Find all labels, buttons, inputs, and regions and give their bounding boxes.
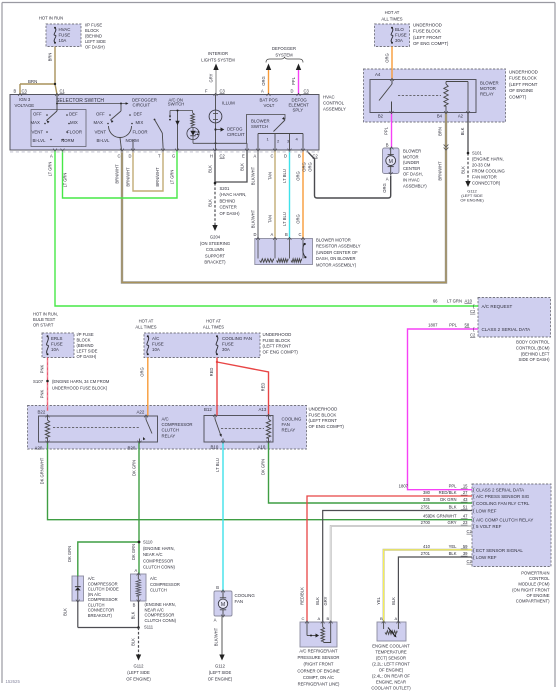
svg-text:C: C: [118, 154, 121, 159]
svg-text:FAN: FAN: [235, 599, 244, 604]
svg-text:GRY: GRY: [209, 73, 214, 82]
svg-text:DEFOG: DEFOG: [227, 127, 243, 132]
svg-text:COMPT, ON A/C: COMPT, ON A/C: [303, 675, 334, 680]
svg-text:OF ENGINE: OF ENGINE: [509, 88, 533, 93]
svg-text:SWITCH: SWITCH: [168, 101, 185, 106]
svg-text:COOLING FAN RLY CTRL: COOLING FAN RLY CTRL: [476, 501, 530, 506]
svg-text:(ECT) SENSOR: (ECT) SENSOR: [376, 656, 406, 661]
svg-text:A22: A22: [137, 410, 145, 415]
svg-text:OF DASH): OF DASH): [85, 45, 105, 50]
svg-text:23: 23: [463, 520, 468, 525]
svg-text:CONTROL (BCM): CONTROL (BCM): [516, 345, 550, 350]
svg-text:HOT AT: HOT AT: [385, 10, 400, 15]
svg-text:CLASS 2 SERIAL DATA: CLASS 2 SERIAL DATA: [476, 488, 524, 493]
svg-text:5 VOLT REF: 5 VOLT REF: [476, 524, 502, 529]
svg-text:BLK: BLK: [449, 505, 457, 510]
svg-text:FUSE: FUSE: [222, 342, 234, 347]
svg-text:CONNECTOR): CONNECTOR): [472, 181, 501, 186]
svg-text:2700: 2700: [421, 520, 431, 525]
svg-text:C2: C2: [220, 154, 226, 159]
svg-text:(HVAC HARN,: (HVAC HARN,: [220, 192, 247, 197]
svg-text:C3: C3: [220, 89, 226, 94]
svg-text:DEF: DEF: [134, 112, 143, 117]
svg-text:BLK: BLK: [460, 127, 465, 135]
svg-text:OFF: OFF: [33, 112, 42, 117]
svg-text:BLK/WHT: BLK/WHT: [251, 166, 256, 185]
svg-text:COOLANT OUTLET): COOLANT OUTLET): [371, 686, 411, 691]
svg-text:IGN 3: IGN 3: [19, 97, 31, 102]
svg-text:OF ENG COMPT): OF ENG COMPT): [309, 424, 345, 429]
svg-text:FROM COOLING: FROM COOLING: [472, 169, 505, 174]
svg-text:LT BLU: LT BLU: [282, 212, 287, 226]
svg-text:CIRCUIT: CIRCUIT: [133, 103, 151, 108]
svg-text:D: D: [129, 154, 132, 159]
svg-text:BLOCK: BLOCK: [85, 28, 99, 33]
svg-text:UNDERHOOD: UNDERHOOD: [509, 70, 538, 75]
svg-text:(LEFT FRONT: (LEFT FRONT: [309, 418, 338, 423]
svg-text:PPL: PPL: [449, 484, 458, 489]
svg-text:C2: C2: [470, 333, 476, 338]
svg-text:58: 58: [465, 323, 470, 328]
svg-text:REFRIGERANT LINE): REFRIGERANT LINE): [298, 682, 340, 687]
svg-text:BLK/WHT: BLK/WHT: [251, 209, 256, 228]
svg-text:YEL: YEL: [376, 596, 381, 605]
svg-text:CORNER OF ENGINE: CORNER OF ENGINE: [297, 668, 340, 673]
svg-text:51: 51: [463, 505, 468, 510]
svg-text:FUSE: FUSE: [395, 33, 407, 38]
svg-text:ALL TIMES: ALL TIMES: [381, 17, 402, 22]
svg-text:NORM: NORM: [126, 138, 140, 143]
svg-text:CONTROL: CONTROL: [529, 576, 550, 581]
svg-text:(ENGINE HARN,: (ENGINE HARN,: [145, 602, 176, 607]
svg-text:B: B: [380, 616, 383, 621]
svg-text:BLOWER MOTOR: BLOWER MOTOR: [316, 238, 351, 243]
svg-text:BLK: BLK: [131, 638, 136, 646]
svg-text:(2.2L: LEFT FRONT: (2.2L: LEFT FRONT: [372, 662, 410, 667]
svg-text:B: B: [298, 154, 301, 159]
svg-text:CLUTCH: CLUTCH: [88, 602, 105, 607]
svg-text:A: A: [395, 616, 398, 621]
svg-text:A/C REQUEST: A/C REQUEST: [482, 304, 513, 309]
svg-text:B: B: [14, 89, 17, 94]
svg-text:CLUTCH: CLUTCH: [162, 428, 179, 433]
svg-text:OF ENGINE): OF ENGINE): [126, 677, 151, 682]
svg-text:BLOWER: BLOWER: [403, 149, 421, 154]
svg-text:COMPRESSOR: COMPRESSOR: [150, 582, 180, 587]
svg-text:VENT: VENT: [32, 130, 44, 135]
svg-text:COOLING FAN: COOLING FAN: [222, 336, 252, 341]
svg-text:CIRCUIT: CIRCUIT: [227, 132, 245, 137]
svg-text:(ON STEERING: (ON STEERING: [200, 241, 230, 246]
svg-text:FUSE: FUSE: [59, 33, 71, 38]
svg-text:C3: C3: [304, 89, 310, 94]
svg-text:BREAKOUT): BREAKOUT): [88, 613, 113, 618]
svg-text:A20: A20: [35, 446, 43, 451]
svg-text:ORG: ORG: [296, 214, 301, 223]
svg-text:B2: B2: [378, 114, 384, 119]
svg-text:66: 66: [433, 299, 438, 304]
svg-text:BRN/WHT: BRN/WHT: [155, 167, 160, 187]
svg-text:CLUTCH CONN): CLUTCH CONN): [145, 618, 177, 623]
svg-text:BLK/WHT: BLK/WHT: [214, 627, 219, 646]
svg-text:380: 380: [423, 490, 431, 495]
svg-text:CLUTCH CONN): CLUTCH CONN): [143, 565, 175, 570]
svg-text:BLO: BLO: [395, 27, 404, 32]
svg-text:DK GRN/WHT: DK GRN/WHT: [40, 457, 45, 484]
svg-text:B: B: [386, 143, 389, 148]
svg-text:BLK: BLK: [391, 597, 396, 605]
svg-text:I/P FUSE: I/P FUSE: [85, 23, 102, 28]
svg-text:G112: G112: [134, 664, 145, 669]
svg-text:FUSE BLOCK: FUSE BLOCK: [413, 29, 441, 34]
svg-text:BAT POS: BAT POS: [260, 98, 278, 103]
svg-text:MIX: MIX: [70, 120, 78, 125]
svg-text:A13: A13: [259, 407, 267, 412]
svg-text:LIGHTS SYSTEM: LIGHTS SYSTEM: [201, 58, 235, 63]
svg-text:C3: C3: [22, 89, 28, 94]
svg-text:RELAY: RELAY: [282, 428, 296, 433]
svg-text:BRN/WHT: BRN/WHT: [115, 164, 120, 184]
svg-text:FUSE: FUSE: [152, 342, 164, 347]
svg-text:BRN/WHT: BRN/WHT: [126, 167, 131, 187]
svg-text:D: D: [291, 89, 294, 94]
svg-text:OR START: OR START: [33, 323, 54, 328]
svg-text:BRN: BRN: [438, 127, 443, 136]
svg-text:BODY CONTROL: BODY CONTROL: [516, 340, 550, 345]
svg-text:NORM: NORM: [61, 138, 75, 143]
svg-text:59: 59: [463, 544, 468, 549]
svg-text:SPLY: SPLY: [293, 108, 304, 113]
svg-text:CLUTCH: CLUTCH: [150, 588, 167, 593]
svg-text:(BEHIND LEFT: (BEHIND LEFT: [521, 351, 550, 356]
svg-text:10A: 10A: [152, 347, 160, 352]
svg-text:A: A: [261, 89, 264, 94]
svg-text:ORG: ORG: [296, 171, 301, 180]
svg-text:SWITCH: SWITCH: [251, 124, 268, 129]
svg-text:ORG: ORG: [140, 367, 145, 376]
svg-text:DK GRN: DK GRN: [67, 546, 72, 562]
svg-text:(ENGINE HARN,: (ENGINE HARN,: [472, 157, 504, 162]
svg-text:D: D: [284, 154, 287, 159]
svg-text:LT GRN: LT GRN: [63, 173, 68, 188]
svg-text:OF ENG COMPT): OF ENG COMPT): [413, 41, 449, 46]
svg-text:B10: B10: [211, 445, 219, 450]
svg-text:OF ENGINE): OF ENGINE): [379, 668, 404, 673]
svg-text:15: 15: [463, 484, 468, 489]
svg-text:CENTER: CENTER: [403, 166, 420, 171]
svg-text:DK GRN: DK GRN: [131, 544, 136, 560]
svg-text:GRY: GRY: [323, 596, 328, 605]
svg-text:A: A: [254, 154, 257, 159]
svg-text:OF DASH,: OF DASH,: [403, 172, 423, 177]
svg-text:RED: RED: [209, 368, 214, 377]
svg-text:(ON RIGHT FRONT: (ON RIGHT FRONT: [512, 587, 550, 592]
svg-text:PNK: PNK: [40, 390, 45, 399]
svg-text:COMPRESSOR: COMPRESSOR: [88, 581, 118, 586]
svg-text:A/C: A/C: [150, 576, 157, 581]
svg-text:MODULE (PCM): MODULE (PCM): [518, 582, 550, 587]
svg-text:B12: B12: [204, 407, 212, 412]
svg-text:IN HVAC: IN HVAC: [403, 178, 420, 183]
svg-text:BI-LVL: BI-LVL: [33, 138, 47, 143]
svg-text:RED/BLK: RED/BLK: [300, 587, 305, 605]
svg-text:(UNDER: (UNDER: [403, 160, 419, 165]
svg-text:A: A: [135, 568, 138, 573]
svg-text:COMPARTMENT): COMPARTMENT): [516, 599, 550, 604]
svg-text:G204: G204: [210, 235, 221, 240]
svg-text:152625: 152625: [6, 679, 21, 684]
svg-text:PRESSURE SENSOR: PRESSURE SENSOR: [298, 655, 340, 660]
svg-text:27: 27: [463, 490, 468, 495]
svg-text:DASH, ON BLOWER: DASH, ON BLOWER: [316, 256, 356, 261]
svg-text:COMPRESSOR: COMPRESSOR: [143, 558, 173, 563]
svg-text:A/C: A/C: [152, 336, 159, 341]
svg-text:C: C: [299, 232, 302, 237]
svg-text:OF ENGINE): OF ENGINE): [460, 198, 484, 203]
svg-text:RELAY: RELAY: [162, 433, 176, 438]
svg-text:PPL: PPL: [449, 323, 458, 328]
svg-text:S107: S107: [33, 379, 44, 384]
svg-text:S101: S101: [472, 151, 482, 156]
svg-text:30A: 30A: [222, 347, 230, 352]
svg-text:ALL TIMES: ALL TIMES: [203, 325, 224, 330]
svg-text:CLUTCH DIODE: CLUTCH DIODE: [88, 587, 119, 592]
svg-text:ENGINE COOLANT: ENGINE COOLANT: [372, 644, 410, 649]
svg-text:VENT: VENT: [95, 130, 107, 135]
svg-text:(2.4L: ON REAR OF: (2.4L: ON REAR OF: [372, 674, 410, 679]
svg-text:RESISTOR ASSEMBLY: RESISTOR ASSEMBLY: [316, 244, 361, 249]
svg-text:H: H: [210, 154, 213, 159]
svg-text:RED/BLK: RED/BLK: [439, 490, 457, 495]
svg-text:UNDERHOOD FUSE BLOCK): UNDERHOOD FUSE BLOCK): [52, 386, 108, 391]
svg-text:B4: B4: [437, 114, 443, 119]
svg-text:FAN MOTOR: FAN MOTOR: [472, 175, 497, 180]
svg-text:ORG: ORG: [308, 162, 313, 171]
svg-text:LT BLU: LT BLU: [215, 458, 220, 472]
svg-text:(ENGINE HARN, 34 CM FROM: (ENGINE HARN, 34 CM FROM: [52, 379, 110, 384]
svg-text:LOW REF: LOW REF: [476, 509, 497, 514]
svg-text:20-33 CM: 20-33 CM: [472, 163, 491, 168]
svg-text:MIX: MIX: [136, 120, 144, 125]
svg-text:ORG: ORG: [382, 183, 387, 192]
svg-text:ALL TIMES: ALL TIMES: [135, 325, 156, 330]
svg-text:HOT IN RUN,: HOT IN RUN,: [33, 312, 58, 317]
svg-text:DK GRN: DK GRN: [440, 497, 456, 502]
svg-text:FUSE BLOCK: FUSE BLOCK: [263, 338, 291, 343]
svg-text:43: 43: [463, 497, 468, 502]
svg-text:VOLT: VOLT: [264, 103, 275, 108]
svg-text:BLK: BLK: [315, 597, 320, 605]
svg-text:BLOWER: BLOWER: [251, 119, 270, 124]
svg-text:LT GRN: LT GRN: [447, 299, 462, 304]
svg-text:A/C: A/C: [88, 576, 95, 581]
svg-text:A: A: [386, 177, 389, 182]
svg-text:ORG: ORG: [385, 53, 390, 62]
svg-text:PPL: PPL: [384, 126, 389, 135]
svg-text:(IN A/C: (IN A/C: [88, 592, 101, 597]
svg-text:BLK: BLK: [449, 551, 457, 556]
svg-text:TAN: TAN: [268, 215, 273, 223]
svg-text:10A: 10A: [51, 347, 59, 352]
svg-text:UNDERHOOD: UNDERHOOD: [413, 23, 442, 28]
svg-text:C1: C1: [60, 89, 66, 94]
svg-text:335: 335: [423, 497, 431, 502]
svg-text:BLK: BLK: [240, 163, 245, 171]
svg-text:BLK: BLK: [63, 608, 68, 616]
svg-text:T: T: [158, 154, 161, 159]
svg-text:30A: 30A: [395, 38, 403, 43]
svg-text:DEFOGGER: DEFOGGER: [272, 46, 296, 51]
svg-text:39: 39: [463, 551, 468, 556]
svg-text:(UNDER CENTER OF: (UNDER CENTER OF: [316, 250, 358, 255]
svg-text:LT GRN: LT GRN: [170, 170, 175, 185]
svg-text:BLK: BLK: [131, 611, 136, 619]
svg-text:OF DASH): OF DASH): [77, 354, 97, 359]
svg-text:COOLING: COOLING: [235, 593, 256, 598]
svg-text:MOTOR: MOTOR: [480, 86, 496, 91]
svg-text:RELAY: RELAY: [480, 92, 494, 97]
svg-text:LEFT SIDE: LEFT SIDE: [85, 39, 106, 44]
svg-text:CLASS 2 SERIAL DATA: CLASS 2 SERIAL DATA: [482, 327, 532, 332]
svg-text:B: B: [216, 585, 219, 590]
svg-text:(BEHIND: (BEHIND: [85, 34, 102, 39]
svg-text:CENTER: CENTER: [220, 205, 237, 210]
svg-text:FUSE BLOCK: FUSE BLOCK: [309, 412, 337, 417]
svg-text:HOT AT: HOT AT: [206, 319, 221, 324]
svg-text:OF ENGINE): OF ENGINE): [208, 677, 233, 682]
svg-text:410: 410: [423, 544, 431, 549]
svg-text:ORG: ORG: [302, 162, 307, 171]
svg-text:A: A: [214, 618, 217, 623]
svg-text:TEMPERATURE: TEMPERATURE: [375, 650, 407, 655]
svg-text:CONTROL: CONTROL: [323, 101, 345, 106]
svg-text:B22: B22: [38, 410, 46, 415]
svg-text:FUSE: FUSE: [51, 342, 63, 347]
svg-text:(LEFT FRONT: (LEFT FRONT: [263, 344, 292, 349]
svg-text:COMPRESSOR: COMPRESSOR: [162, 422, 193, 427]
svg-text:COMPT): COMPT): [509, 94, 527, 99]
svg-text:S201: S201: [220, 186, 230, 191]
svg-text:A: A: [271, 232, 274, 237]
svg-text:COMPRESSOR: COMPRESSOR: [88, 597, 118, 602]
svg-text:(RIGHT FRONT: (RIGHT FRONT: [304, 662, 334, 667]
svg-text:HVAC: HVAC: [59, 27, 71, 32]
svg-text:COMPRESSOR: COMPRESSOR: [145, 613, 175, 618]
svg-text:DK GRN: DK GRN: [132, 460, 137, 476]
svg-text:(LEFT SIDE: (LEFT SIDE: [127, 670, 150, 675]
svg-text:DK GRN/WHT: DK GRN/WHT: [430, 514, 457, 519]
svg-text:YEL: YEL: [449, 544, 458, 549]
svg-text:G112: G112: [215, 664, 226, 669]
svg-text:B20: B20: [128, 446, 136, 451]
svg-text:C2: C2: [467, 559, 473, 564]
svg-text:TAN: TAN: [268, 172, 273, 180]
svg-text:BLK: BLK: [461, 166, 466, 174]
svg-text:S110: S110: [143, 540, 153, 545]
svg-text:BRN/WHT: BRN/WHT: [438, 161, 443, 181]
svg-text:RED: RED: [261, 383, 266, 392]
svg-text:FAN: FAN: [282, 422, 290, 427]
svg-text:1807: 1807: [428, 323, 438, 328]
svg-text:ASSEMBLY): ASSEMBLY): [403, 183, 427, 188]
svg-text:(ENGINE HARN,: (ENGINE HARN,: [143, 546, 175, 551]
svg-text:NEAR A/C: NEAR A/C: [143, 552, 163, 557]
svg-text:BRN: BRN: [28, 79, 37, 84]
svg-text:BRN: BRN: [48, 53, 53, 62]
svg-text:GRY: GRY: [448, 520, 457, 525]
svg-text:M: M: [221, 602, 225, 608]
svg-text:BEHIND: BEHIND: [220, 198, 236, 203]
svg-text:E: E: [242, 154, 245, 159]
svg-text:SELECTOR SWITCH: SELECTOR SWITCH: [56, 98, 104, 104]
svg-text:B: B: [133, 603, 136, 608]
svg-text:2701: 2701: [421, 551, 431, 556]
svg-text:OF DASH): OF DASH): [220, 211, 241, 216]
svg-text:C2: C2: [467, 529, 473, 534]
svg-text:LT GRN: LT GRN: [48, 162, 53, 177]
svg-text:COOLING: COOLING: [282, 417, 302, 422]
svg-text:BLK: BLK: [208, 165, 213, 173]
svg-text:A: A: [50, 154, 53, 159]
svg-text:A2: A2: [458, 114, 464, 119]
svg-text:G: G: [172, 154, 175, 159]
svg-text:LEFT SIDE: LEFT SIDE: [77, 349, 98, 354]
svg-text:A/C PRESS SENSOR SIG: A/C PRESS SENSOR SIG: [476, 494, 530, 499]
svg-text:MOTOR: MOTOR: [403, 154, 419, 159]
svg-text:ECT SENSOR SIGNAL: ECT SENSOR SIGNAL: [476, 548, 523, 553]
svg-text:INTERIOR: INTERIOR: [208, 51, 228, 56]
svg-text:MAX: MAX: [31, 120, 41, 125]
svg-text:ORG: ORG: [261, 76, 266, 85]
svg-text:1807: 1807: [399, 484, 409, 489]
svg-text:BRACKET): BRACKET): [204, 260, 226, 265]
svg-text:OF ENGINE: OF ENGINE: [526, 593, 549, 598]
svg-text:(LEFT FRONT: (LEFT FRONT: [509, 82, 538, 87]
svg-text:NEAR A/C: NEAR A/C: [145, 607, 164, 612]
svg-text:A4: A4: [375, 72, 381, 77]
svg-text:I/P FUSE: I/P FUSE: [77, 332, 94, 337]
svg-text:B: B: [285, 232, 288, 237]
svg-text:A10: A10: [258, 445, 266, 450]
svg-text:OFF: OFF: [96, 112, 105, 117]
svg-text:C: C: [271, 154, 274, 159]
svg-text:47: 47: [463, 514, 468, 519]
svg-text:B: B: [327, 616, 330, 621]
svg-text:2751: 2751: [421, 505, 431, 510]
svg-text:HVAC: HVAC: [323, 95, 335, 100]
svg-text:10A: 10A: [59, 38, 67, 43]
svg-text:ENGINE, NEAR: ENGINE, NEAR: [376, 680, 406, 685]
svg-text:S111: S111: [144, 625, 154, 630]
svg-text:SIDE OF DASH): SIDE OF DASH): [519, 357, 551, 362]
svg-text:FUSE BLOCK: FUSE BLOCK: [509, 76, 537, 81]
svg-text:C: C: [302, 616, 305, 621]
svg-text:A/C: A/C: [162, 417, 169, 422]
svg-text:OF ENG COMPT): OF ENG COMPT): [263, 349, 299, 354]
svg-text:MOTOR ASSEMBLY): MOTOR ASSEMBLY): [316, 262, 357, 267]
svg-text:COLUMN: COLUMN: [206, 247, 224, 252]
svg-text:C2: C2: [313, 154, 319, 159]
svg-text:PNK: PNK: [40, 365, 45, 374]
svg-text:VOLTAGE: VOLTAGE: [15, 103, 35, 108]
svg-text:DK GRN: DK GRN: [261, 459, 266, 475]
svg-text:HOT AT: HOT AT: [139, 319, 154, 324]
svg-text:FLOOR: FLOOR: [67, 130, 82, 135]
svg-text:A/C REFRIGERANT: A/C REFRIGERANT: [299, 649, 338, 654]
svg-text:(BEHIND: (BEHIND: [77, 343, 94, 348]
svg-text:POWERTRAIN: POWERTRAIN: [521, 571, 549, 576]
svg-text:BLK: BLK: [208, 199, 213, 207]
